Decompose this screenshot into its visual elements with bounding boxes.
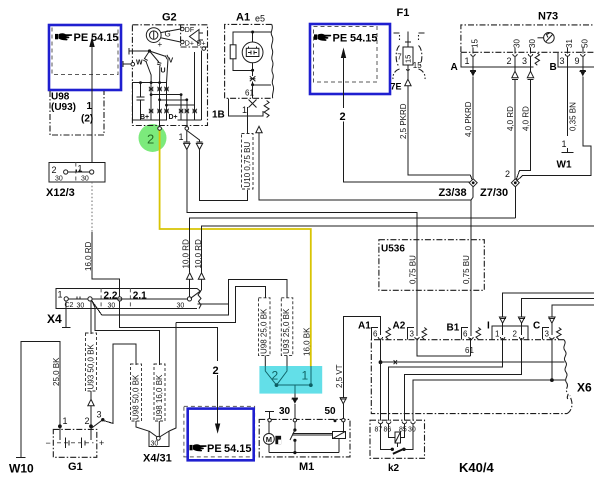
partition dash-dot inside G2 [181, 25, 208, 47]
connector arrow N73 A3 up [527, 71, 533, 78]
label wire bracket U93 50,0 BK [86, 333, 97, 391]
svg-text:+: + [99, 438, 104, 448]
svg-text:C: C [533, 321, 540, 332]
svg-text:B: B [550, 62, 557, 73]
wire I/1 from right edge [503, 293, 594, 316]
starter motor M1 dash-dot box [259, 419, 350, 457]
svg-text:54.15: 54.15 [91, 32, 119, 44]
battery switch lever G1 pin 3 [91, 420, 103, 429]
K40 connector A2 pin 3 [408, 328, 427, 340]
svg-text:10,0 RD: 10,0 RD [182, 239, 191, 269]
ground W1 [562, 152, 574, 154]
fuse box bracket right dash-dot [419, 33, 426, 79]
svg-text:30: 30 [513, 39, 522, 48]
svg-text:2.1: 2.1 [133, 291, 147, 302]
brush assembly D+ [190, 30, 206, 51]
wire D+ to U10 0,75 BU to A1 pin 1 [200, 150, 248, 201]
svg-text:U: U [161, 68, 166, 75]
N73 pin B3 socket [560, 39, 575, 153]
A1 internal wiring [233, 32, 253, 45]
wire A2/3 to terminal 61 [417, 338, 470, 356]
svg-text:61: 61 [465, 346, 474, 355]
svg-text:U93 25,0 BK: U93 25,0 BK [282, 308, 291, 354]
K40 connector B1 pin 6 [462, 328, 481, 340]
svg-text:2: 2 [52, 165, 57, 175]
svg-text:3: 3 [560, 56, 565, 66]
svg-text:M: M [266, 435, 272, 444]
wire k2/87 [380, 362, 382, 420]
svg-text:B+: B+ [140, 114, 149, 121]
wire 0,75 BU right through U536 [470, 240, 472, 336]
ground stub X4 pin 1 [65, 301, 67, 328]
svg-text:1: 1 [78, 164, 83, 174]
relay coil k2 [395, 432, 401, 443]
svg-text:1: 1 [179, 132, 184, 142]
svg-text:K40/4: K40/4 [459, 460, 494, 475]
svg-text:W: W [136, 60, 143, 67]
svg-text:+: + [158, 40, 163, 49]
svg-text:3: 3 [410, 330, 415, 339]
wire I/2 from right edge [522, 298, 594, 316]
wire k2/86 to I/1 [389, 338, 503, 421]
connector arrow starter 30 [292, 398, 298, 404]
relay k2 dash-dot box [370, 420, 425, 458]
wire 4,0 RD pin2 to Z7/30 [514, 79, 516, 179]
svg-text:54.15: 54.15 [224, 443, 252, 455]
wire junction to starter terminal 30 [277, 384, 311, 386]
svg-text:15: 15 [471, 39, 480, 48]
stator windings W V U [136, 49, 174, 82]
connector arrow 1B feed [256, 126, 262, 133]
wire U93 25,0 BK into junction 2 [286, 356, 288, 366]
exciter diode columns [178, 51, 202, 121]
svg-text:A: A [451, 62, 458, 73]
svg-text:W10: W10 [9, 462, 34, 476]
connector arrows D+ twin feed [186, 130, 188, 142]
svg-text:I: I [487, 321, 490, 332]
wire yellow 16,0 BK from G2 B+ to cyan junction 1 [160, 131, 311, 367]
G2 terminal B+ exit [159, 120, 161, 126]
solder point Z7/30 [511, 179, 519, 187]
svg-text:F1: F1 [397, 7, 410, 19]
wire k2/30 to C/3 and X6 [413, 380, 565, 420]
dropping resistor in A1 [230, 45, 236, 59]
ground W10 [16, 457, 26, 459]
svg-text:U536: U536 [381, 244, 405, 255]
svg-text:X4: X4 [47, 312, 62, 326]
reference box PE 54.15 (bottom) blue frame [188, 409, 254, 461]
terminal DF [181, 27, 185, 31]
wire 0,75 BU left through U536 [416, 240, 418, 336]
instrument cluster A1 dash-dot box [225, 24, 272, 98]
wire X4/30 to U93 25,0 BK (loop A) [92, 280, 287, 316]
svg-text:1: 1 [495, 330, 500, 339]
arrow up into PE box 1 [89, 37, 94, 48]
wire 50 feed N73 B9 to Z7/30 node [517, 77, 592, 182]
wire C/3 from right edge [552, 305, 594, 317]
svg-text:1: 1 [465, 56, 470, 66]
svg-text:V: V [169, 58, 174, 65]
svg-text:30: 30 [81, 176, 89, 183]
break symbol on wire [394, 360, 397, 364]
svg-text:2: 2 [513, 330, 518, 339]
svg-text:61: 61 [245, 89, 254, 98]
svg-text:DF: DF [185, 27, 194, 34]
ground stub at M1 [265, 410, 274, 412]
svg-text:1: 1 [242, 105, 247, 115]
wire Z7/30 down to 30 rail [514, 187, 516, 218]
svg-text:2: 2 [505, 169, 510, 179]
svg-text:30: 30 [55, 176, 63, 183]
svg-text:30: 30 [108, 303, 116, 310]
svg-text:k2: k2 [388, 463, 400, 474]
svg-text:2: 2 [85, 416, 90, 426]
svg-text:2,5 PKRD: 2,5 PKRD [399, 103, 408, 139]
wire branch to U98 16,0 BK [95, 308, 159, 365]
relay switch k2 [381, 424, 393, 450]
stub terminal with eyelet [122, 61, 124, 67]
wire X4 2.2 to PE (54.15) feed [120, 301, 218, 361]
M1 bottom rail [269, 452, 339, 454]
ignition switch symbol [538, 33, 555, 44]
svg-text:2: 2 [147, 132, 154, 147]
svg-text:30: 30 [408, 427, 416, 434]
svg-text:4,0 RD: 4,0 RD [506, 106, 515, 131]
svg-text:87: 87 [375, 427, 383, 434]
svg-text:G1: G1 [68, 461, 83, 473]
charge indicator lamp symbol [242, 42, 263, 63]
k2 pin sockets [378, 422, 382, 424]
svg-text:X4/31: X4/31 [143, 453, 172, 465]
wire X4 edge continuation to loop A [198, 303, 229, 305]
rectifier diodes phase columns [149, 83, 169, 121]
starter switch contact 30 [293, 419, 296, 422]
svg-text:2.2: 2.2 [104, 291, 118, 302]
highlight marker cyan box at starter junction [259, 366, 322, 394]
diode symbol in A1 [250, 76, 256, 81]
reference box PE 54.15 (bottom) dashed frame [184, 406, 255, 457]
connector X4 [56, 288, 201, 309]
solder point Z3/38 [469, 179, 477, 187]
svg-text:−: − [46, 438, 51, 448]
svg-text:6: 6 [373, 330, 378, 339]
svg-text:1: 1 [302, 369, 309, 383]
svg-text:U98 25,0 BK: U98 25,0 BK [260, 308, 269, 354]
svg-text:(U93): (U93) [51, 102, 76, 113]
solenoid coil box [332, 431, 345, 438]
connector arrow N73 A1 out [470, 70, 476, 77]
svg-text:G2: G2 [162, 12, 177, 24]
connector pins below A1 [249, 100, 257, 108]
connector arrow fuse output [405, 79, 411, 86]
N73 pin A3 socket [522, 39, 537, 71]
svg-text:0,75 BU: 0,75 BU [462, 255, 471, 284]
wire U98 25,0 BK into junction 2 [264, 356, 266, 366]
label wire bracket U10 0,75 BU [242, 134, 254, 190]
svg-text:7: 7 [397, 53, 402, 62]
wire 4,0 RD pin3 to Z7/30 [516, 79, 530, 179]
svg-text:25,0 BK: 25,0 BK [52, 357, 61, 386]
svg-text:e5: e5 [255, 14, 265, 24]
svg-text:A1: A1 [358, 321, 371, 332]
K40 connector A1 pin 6 [371, 328, 390, 340]
N73 pin B9 socket [575, 39, 590, 70]
svg-text:1: 1 [87, 101, 93, 112]
svg-text:0,35 BN: 0,35 BN [569, 102, 578, 131]
svg-text:86: 86 [384, 427, 392, 434]
wire Z3/38 down to node 61 feed [472, 187, 474, 197]
svg-text:7E: 7E [391, 82, 402, 92]
terminal block X4/31 [136, 421, 169, 448]
svg-text:0,75 BU: 0,75 BU [408, 255, 417, 284]
svg-text:PE: PE [74, 32, 89, 44]
svg-text:10,0 RD: 10,0 RD [194, 239, 203, 269]
generator symbol G [146, 28, 170, 49]
K40 connector C pin 3 [543, 328, 562, 340]
terminal D+ (field) [181, 40, 185, 44]
svg-text:1B: 1B [212, 110, 225, 121]
svg-text:30: 30 [177, 303, 185, 310]
arrow up into PE box 2 [341, 48, 346, 59]
connector arrow U93 wire at G1 [88, 399, 94, 406]
svg-text:U98 50,0 BK: U98 50,0 BK [131, 374, 140, 420]
svg-text:X12/3: X12/3 [46, 187, 75, 199]
svg-text:30: 30 [151, 441, 159, 448]
svg-text:2: 2 [272, 369, 279, 383]
wire X4/31 to U98 25,0 BK (loop B) [176, 287, 265, 323]
G2 terminal D+ exit [186, 120, 188, 126]
wire 2,5 PKRD to Z3/38 [408, 86, 472, 180]
relay module K40/4 dash-dot frame [371, 340, 567, 414]
stub terminal into G2 upper [128, 48, 130, 55]
svg-text:50: 50 [580, 39, 589, 48]
wire 1B feed from Z3/38 node [259, 133, 471, 240]
svg-text:PE: PE [207, 443, 222, 455]
connector arrow 10,0 RD no.1 [187, 273, 193, 280]
resistor squiggle A1 bracket [264, 101, 269, 118]
highlight marker green circle on G2 terminal 2 [139, 124, 167, 152]
svg-text:9: 9 [575, 56, 580, 66]
wire 10,0 RD no.1 X4 to Z7/30 [189, 280, 191, 297]
svg-text:W1: W1 [557, 160, 572, 171]
pointing-hand icon PE box 1 [55, 33, 72, 40]
svg-text:30: 30 [77, 303, 85, 310]
connector arrow N73 B9 out [580, 70, 586, 77]
svg-text:54.15: 54.15 [350, 33, 378, 45]
wire 25,0 BK G1 pin 1 to W10 [21, 342, 60, 458]
fuse box bracket left dash-dot [393, 33, 400, 79]
wire 16,0 RD from X12/3 to X4 terminal 2.2 [92, 232, 120, 297]
label wire bracket U98 16,0 BK [154, 364, 165, 421]
contact 50 [342, 419, 345, 422]
wires generator to terminals [161, 29, 181, 33]
svg-text:2: 2 [340, 111, 346, 123]
wire 4,0 PKRD to Z3/38 [472, 77, 474, 180]
wire A1/6 to X6 (starter 50 monitor) [380, 339, 382, 362]
svg-text:B1: B1 [447, 323, 460, 334]
svg-text:U98 16,0 BK: U98 16,0 BK [155, 374, 164, 420]
wire 2,5 VT from K40 A1/6 to starter 50 [343, 316, 380, 397]
capacitor in G2 [136, 83, 144, 121]
svg-text:4,0 PKRD: 4,0 PKRD [464, 101, 473, 137]
pointing-hand icon PE box 2 [314, 34, 331, 41]
svg-text:A1: A1 [236, 12, 250, 24]
svg-text:(2): (2) [81, 114, 93, 125]
junction 2 solder dot [275, 383, 279, 387]
junction 1 solder dot [309, 383, 313, 387]
component U98 (U93) dash-dot box [50, 91, 104, 135]
alternator G2 dash-dot box [132, 25, 207, 126]
pointing-hand icon PE box 3 [190, 444, 207, 451]
svg-text:31: 31 [565, 39, 574, 48]
svg-text:6: 6 [463, 330, 468, 339]
svg-text:2,5 VT: 2,5 VT [335, 364, 344, 388]
wire loop B into X4/31 [169, 323, 176, 432]
wire X4/30 down to U93 50,0 BK battery feed [90, 301, 92, 334]
reference box PE 54.15 (top middle) blue frame [310, 24, 390, 94]
svg-text:1: 1 [58, 290, 63, 300]
rectifier cross rails to exciter diodes [150, 93, 195, 106]
svg-text:3: 3 [97, 410, 102, 420]
svg-text:M1: M1 [299, 461, 314, 473]
torn edge X6 inside K40 [564, 340, 567, 383]
svg-text:Z7/30: Z7/30 [480, 187, 508, 199]
svg-text:3: 3 [545, 330, 550, 339]
rectifier bus frame [132, 83, 167, 121]
svg-text:50: 50 [325, 406, 337, 417]
svg-text:1: 1 [562, 139, 567, 149]
label wire bracket U98 50,0 BK [131, 364, 142, 421]
svg-text:PE: PE [333, 33, 348, 45]
svg-text:X6: X6 [577, 381, 592, 395]
K40 connector I pins 1 2 [492, 326, 528, 340]
svg-text:16,0 BK: 16,0 BK [302, 327, 311, 356]
svg-text:30: 30 [279, 406, 291, 417]
battery G1 [46, 410, 105, 458]
label wire bracket U98 25,0 BK [259, 298, 271, 356]
svg-text:15: 15 [413, 61, 422, 70]
svg-text:U98: U98 [51, 92, 70, 103]
wire G1 pin 3 to U98 50,0 BK [104, 344, 136, 423]
wire 10,0 RD no.2 X4 to right edge [191, 290, 202, 298]
actuator rod [293, 432, 333, 434]
svg-text:4,0 RD: 4,0 RD [522, 106, 531, 131]
wire B1/6 to terminal 61 [470, 338, 472, 356]
reference box PE 54.15 (top middle) dashed frame [314, 27, 378, 83]
svg-text:30: 30 [528, 39, 537, 48]
svg-text:15: 15 [403, 55, 412, 63]
svg-text:D+: D+ [169, 114, 178, 121]
label wire bracket U93 25,0 BK [281, 298, 293, 356]
svg-text:3: 3 [522, 56, 527, 66]
control unit N73 dash-dot box [461, 25, 594, 52]
connector arrow 10,0 RD no.2 [198, 273, 204, 280]
svg-text:A2: A2 [393, 321, 406, 332]
wire k2/85 to I/2 [404, 338, 521, 421]
svg-text:Z3/38: Z3/38 [439, 187, 467, 199]
connector U536 dash-dot box [379, 240, 484, 291]
connector arrow N73 A2 up [512, 71, 518, 78]
wire U93/X12-3 dotted hidden section [91, 182, 93, 232]
wire PE box 2 to Z3/38 [344, 122, 470, 182]
connector X12/3 [49, 163, 105, 183]
motor symbol M [264, 422, 275, 453]
svg-text:N73: N73 [538, 11, 558, 23]
reference box PE 54.15 (top left) dashed frame [52, 26, 118, 75]
reference box PE 54.15 (top left) blue frame [49, 25, 121, 90]
svg-text:U10 0,75 BU: U10 0,75 BU [243, 141, 252, 187]
svg-text:16,0 RD: 16,0 RD [84, 241, 93, 271]
N73 pin A2 socket [507, 39, 522, 71]
svg-text:U93 50,0 BK: U93 50,0 BK [86, 343, 95, 389]
A1 torn right edge [271, 24, 273, 98]
resistor squiggle N73 A3 [535, 53, 539, 65]
wire D+ to U536 left (0,75 BU) [187, 150, 417, 240]
arrow down into PE box 3 [217, 375, 219, 424]
N73 pin A1 socket [465, 39, 480, 70]
svg-text:2: 2 [507, 56, 512, 66]
N73 bracket B [558, 53, 594, 67]
N73 bracket A [461, 53, 534, 67]
connector arrow starter 50 [340, 398, 346, 404]
svg-text:1: 1 [63, 416, 68, 426]
brush symbol M1 [275, 436, 281, 444]
